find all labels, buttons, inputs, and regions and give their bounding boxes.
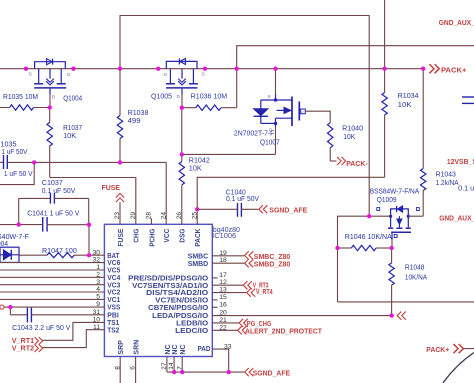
svg-text:SMBC_Z80: SMBC_Z80	[254, 254, 291, 261]
pin 26 DSG (top)	[176, 212, 187, 243]
svg-text:R1048: R1048	[405, 265, 425, 272]
net label V_RT2	[12, 344, 43, 352]
svg-text:R1038: R1038	[128, 110, 149, 117]
svg-text:004: 004	[0, 241, 8, 248]
wire Q1009 source to R1043	[408, 215, 423, 217]
wire Q1007 drain to R1040	[305, 111, 330, 123]
pin 30 BAT (left)	[92, 249, 119, 259]
svg-text:VC7SEN/TS3/AD1/IO: VC7SEN/TS3/AD1/IO	[132, 283, 209, 290]
wire PACK pin net from R1034	[197, 177, 384, 224]
svg-text:0.1 uF 50V: 0.1 uF 50V	[42, 188, 76, 195]
junction R1036 rail	[235, 67, 239, 71]
svg-text:R1034: R1034	[398, 93, 419, 100]
resistor R1034	[382, 69, 387, 178]
wire NC pin 14 stub	[173, 357, 175, 373]
svg-text:1 uF 50V: 1 uF 50V	[1, 149, 27, 156]
svg-text:TS2: TS2	[107, 327, 119, 334]
svg-text:499: 499	[128, 118, 141, 125]
pin 16 CB7EN/PDSG/IO (right)	[148, 301, 227, 312]
capacitor C1040	[197, 203, 258, 217]
net label FUSE with chevron	[102, 185, 125, 202]
pin 25 PACK (top)	[191, 212, 202, 247]
wire pin 12 to V_RT3	[212, 284, 243, 286]
wire pin 13 to V_RT4	[212, 292, 246, 294]
svg-text:2N7002T-7-F: 2N7002T-7-F	[234, 131, 275, 138]
junction C1037 C1041 left	[17, 222, 21, 226]
wire Q1005 drain stub	[181, 95, 183, 108]
wire main PACK+ rail y=68.7	[0, 68, 423, 70]
transistor Q1004	[29, 59, 71, 100]
resistor R1046	[338, 245, 392, 250]
svg-text:10K: 10K	[189, 165, 202, 172]
svg-text:SRN: SRN	[134, 340, 141, 355]
pin 7 NC (bottom)	[176, 344, 187, 369]
pin 3 VC3 (left)	[96, 279, 120, 290]
wire top loop B from rail at x=236.7 up to y=45.7 and right off-sheet	[237, 46, 474, 69]
wire pin 22 to ALERT	[212, 329, 237, 331]
wire pin 21 to PG_CHG	[212, 322, 239, 324]
connector circle VSS	[0, 305, 4, 309]
wire PAD pin 33	[212, 349, 228, 372]
wire VCC net y=162.4	[7, 161, 166, 163]
svg-text:LEDA/PDSG/IO: LEDA/PDSG/IO	[152, 313, 209, 320]
svg-text:S: S	[29, 72, 32, 77]
wire lower rail to off-sheet right	[338, 301, 474, 303]
junction PAD	[227, 370, 231, 374]
wire gate riser Q1007	[275, 127, 277, 155]
svg-text:LEDB/IO: LEDB/IO	[176, 321, 209, 328]
svg-text:17: 17	[219, 272, 227, 279]
svg-text:ALERT_2ND_PROTECT: ALERT_2ND_PROTECT	[245, 329, 323, 336]
svg-text:D: D	[301, 110, 304, 114]
pin 2 VC4 (left)	[96, 271, 120, 282]
svg-text:R1036 10M: R1036 10M	[191, 94, 228, 101]
svg-text:10K: 10K	[63, 133, 76, 140]
capacitor C1043	[10, 308, 104, 323]
svg-text:IC1006: IC1006	[212, 233, 236, 240]
svg-text:SGND_AFE: SGND_AFE	[269, 207, 307, 214]
svg-text:PBI: PBI	[107, 312, 119, 319]
wire C1037 right leg down	[88, 198, 90, 224]
wire Q1009 drain down to R1046 junction	[391, 240, 393, 248]
svg-text:Q1009: Q1009	[377, 197, 397, 204]
pin 18 SMBD (right)	[188, 257, 227, 268]
junction PACK+ rail	[421, 67, 425, 71]
resistor R1047	[19, 253, 104, 258]
wire C1035 branch down-left	[0, 162, 34, 184]
wire VC6 row	[0, 262, 104, 264]
net label SMBC_Z80	[245, 251, 291, 261]
wire pin 16 stub	[212, 306, 217, 308]
wire Q1004 drain stub	[49, 95, 51, 108]
junction R1034 rail	[382, 67, 386, 71]
wire VCC net corner down to pin 24	[165, 162, 167, 224]
svg-text:29: 29	[130, 212, 137, 220]
svg-text:1.2k/NA: 1.2k/NA	[436, 180, 459, 187]
junction pin25 C1040	[195, 207, 199, 211]
resistor R1037	[47, 108, 52, 178]
svg-text:SMBC: SMBC	[188, 253, 209, 260]
wire gate net Q1007	[182, 153, 276, 155]
resistor R1036	[182, 69, 237, 111]
resistor R1042	[179, 108, 184, 225]
wire NC pin 7 stub	[181, 357, 183, 373]
svg-text:0.1 uF 50V: 0.1 uF 50V	[226, 196, 259, 203]
svg-text:DIS/TS4/AD2/IO: DIS/TS4/AD2/IO	[146, 290, 209, 297]
wire R1034 net off-sheet top	[384, 0, 386, 69]
svg-text:R1043: R1043	[436, 172, 456, 179]
svg-text:SMBD: SMBD	[188, 261, 209, 268]
svg-text:V_RT1: V_RT1	[12, 338, 34, 345]
wire Q1007 source to rail	[275, 69, 277, 94]
junction R1035 R1037	[48, 105, 52, 109]
svg-text:VC7EN/DIS/IO: VC7EN/DIS/IO	[155, 298, 209, 305]
svg-text:R1047 100: R1047 100	[42, 248, 77, 255]
svg-text:R1035 10M: R1035 10M	[3, 94, 38, 101]
transistor Q1005	[164, 58, 205, 99]
wire SRN pin 6 stub	[135, 357, 137, 383]
net label PACK-	[337, 157, 368, 168]
pin 20 LEDA/PDSG/IO (right)	[152, 310, 227, 321]
svg-text:10K/NA: 10K/NA	[405, 275, 428, 282]
svg-text:VC3: VC3	[107, 282, 120, 289]
svg-text:CHG: CHG	[134, 228, 141, 242]
wire pin 17 stub	[212, 277, 217, 279]
pin 19 SMBC (right)	[188, 250, 227, 261]
junction Q1005 S	[203, 67, 207, 71]
svg-text:0.1 u: 0.1 u	[458, 186, 474, 193]
svg-text:PCHG: PCHG	[149, 228, 156, 246]
svg-text:BSS84W-7-F/NA: BSS84W-7-F/NA	[370, 189, 420, 196]
svg-text:15: 15	[219, 294, 227, 301]
junction R1038 VCC	[118, 160, 122, 164]
pin 14 NC (bottom)	[168, 344, 179, 369]
pin 27 NC (bottom)	[161, 344, 172, 369]
pin 15 VC7EN/DIS/IO (right)	[155, 294, 227, 305]
svg-text:V_RT4: V_RT4	[256, 289, 273, 296]
junction R1038 top	[118, 67, 122, 71]
capacitor C1035	[0, 155, 7, 169]
svg-text:PRE/SD/DIS/PDSG/IO: PRE/SD/DIS/PDSG/IO	[128, 276, 209, 283]
junction BAT	[87, 253, 91, 257]
net label V_RT1	[12, 337, 43, 345]
capacitor C1041	[0, 217, 89, 232]
resistor R1038	[117, 69, 122, 163]
svg-text:R1046 10K/NA: R1046 10K/NA	[345, 234, 392, 241]
svg-text:R1037: R1037	[63, 125, 82, 132]
resistor R1040	[328, 123, 337, 161]
wire R1037 to CHG pin 29	[50, 178, 136, 225]
capacitor plates at right edge	[462, 96, 474, 98]
svg-text:V_RT2: V_RT2	[12, 346, 34, 353]
junction Q1005 G	[156, 67, 160, 71]
net label LEDA chevron	[397, 312, 406, 320]
pin 5 VC1 (left)	[96, 294, 120, 305]
pin 29 CHG (top)	[130, 212, 141, 243]
pin 6 SRN (bottom)	[130, 340, 141, 370]
svg-text:NC: NC	[165, 344, 172, 354]
wire TS2 to V_RT2	[43, 330, 105, 348]
svg-text:VCC: VCC	[164, 229, 171, 243]
junction C1041 right	[87, 223, 91, 227]
pin 9 VSS (left)	[96, 301, 120, 312]
svg-text:PACK-: PACK-	[346, 161, 368, 168]
svg-text:LEDC/IO: LEDC/IO	[175, 328, 209, 335]
resistor R1048	[389, 248, 394, 316]
svg-text:VC2: VC2	[107, 290, 120, 297]
svg-text:PACK: PACK	[195, 229, 202, 247]
svg-text:Q1007: Q1007	[260, 139, 280, 146]
wire VC2 row	[0, 291, 104, 293]
svg-text:S40W-7-F: S40W-7-F	[0, 234, 29, 241]
junction LEDA R1048	[389, 313, 393, 317]
pin 28 PCHG (top)	[146, 212, 157, 247]
net label PG_CHG	[239, 319, 272, 328]
net label SGND_AFE mid	[259, 205, 308, 214]
pin 8 SRP (bottom)	[114, 340, 125, 370]
net label V_RT3	[243, 281, 268, 289]
connector arc bottom right	[443, 353, 474, 383]
resistor R1035	[0, 105, 50, 110]
svg-text:NC: NC	[180, 344, 187, 354]
svg-text:28: 28	[146, 212, 153, 220]
diode D1004 in box	[0, 247, 19, 262]
wire Q1009 gate net	[369, 215, 390, 217]
pin 11 TS2 (left)	[93, 324, 119, 335]
svg-text:FUSE: FUSE	[118, 228, 125, 246]
pin 22 LEDC/IO (right)	[175, 324, 227, 335]
svg-text:FUSE: FUSE	[102, 185, 121, 192]
pin 23 FUSE stub	[119, 202, 121, 224]
junction VSS C1043	[8, 305, 12, 309]
svg-text:PAD: PAD	[198, 346, 211, 353]
svg-text:Q1005: Q1005	[151, 93, 172, 100]
svg-text:TS1: TS1	[107, 320, 119, 327]
net label ALERT_2ND_PROTECT	[238, 326, 323, 335]
net label PACK+ bottom	[426, 344, 474, 354]
pin 33 PAD	[198, 343, 232, 353]
svg-text:C1037: C1037	[42, 180, 63, 187]
wire VC4 row	[0, 276, 104, 278]
wire pin 15 stub	[212, 299, 217, 301]
wire SGND_AFE bottom rail	[167, 371, 244, 373]
pin 12 VC7SEN/TS3/AD1/IO (right)	[132, 279, 227, 290]
wire LEDA pin 20	[212, 315, 391, 317]
svg-text:10K: 10K	[343, 134, 355, 141]
svg-text:GND_AUX_Z: GND_AUX_Z	[439, 20, 474, 27]
wire top loop A from rail up to y=15.5 across to x=369.2	[120, 16, 369, 217]
junction C1035	[32, 160, 36, 164]
svg-text:R1042: R1042	[189, 158, 210, 165]
svg-text:GND_AUX_Z: GND_AUX_Z	[439, 216, 474, 223]
pin 28 stub	[150, 218, 152, 224]
wire TS1 to V_RT1	[43, 322, 105, 340]
svg-text:Q1004: Q1004	[63, 95, 82, 102]
svg-text:VC1: VC1	[107, 297, 120, 304]
IC U1006 bq40z80 body	[104, 224, 212, 356]
net label V_RT4	[247, 289, 273, 297]
junction R1042 gate net	[180, 152, 184, 156]
junction Q1009 gate	[367, 214, 371, 218]
wire SMBC pin 19	[212, 255, 244, 257]
svg-text:SRP: SRP	[118, 340, 125, 355]
wire NC pin 27 stub	[166, 357, 168, 373]
pin 4 VC2 (left)	[96, 286, 120, 297]
svg-text:SMBD_Z80: SMBD_Z80	[254, 261, 291, 268]
wire VC1 row	[0, 298, 104, 300]
junction Q1005 drain	[180, 106, 184, 110]
pin 21 LEDB/IO (right)	[176, 317, 227, 328]
junction NC14	[172, 370, 176, 374]
svg-text:1035: 1035	[1, 141, 17, 148]
svg-text:S: S	[268, 94, 271, 99]
pin 10 TS1 (left)	[92, 317, 119, 328]
wire SRP pin 8 stub	[119, 357, 121, 383]
svg-text:10K: 10K	[398, 102, 412, 109]
net label SMBD_Z80	[245, 259, 291, 268]
svg-text:G: G	[67, 72, 71, 77]
pin 32 VC6 (left)	[92, 257, 120, 268]
svg-text:PG_CHG: PG_CHG	[247, 321, 272, 328]
pin 24 VCC (top)	[160, 212, 171, 243]
junction R1046 left	[335, 246, 339, 250]
svg-text:R1040: R1040	[342, 125, 363, 132]
resistor R1043	[421, 69, 426, 217]
pin 23 FUSE (top)	[114, 212, 125, 247]
junction NC7	[180, 370, 184, 374]
svg-text:DSG: DSG	[180, 228, 187, 243]
capacitor C1037	[19, 193, 89, 204]
svg-text:30: 30	[92, 249, 100, 256]
pin 13 DIS/TS4/AD2/IO (right)	[146, 287, 227, 298]
svg-text:VC4: VC4	[107, 275, 120, 282]
svg-text:PACK+: PACK+	[441, 67, 467, 74]
svg-text:NC: NC	[172, 344, 179, 354]
svg-text:C1041 1 uF 50 V: C1041 1 uF 50 V	[27, 211, 80, 218]
svg-text:PACK+: PACK+	[426, 347, 449, 354]
junction Q1004 S	[24, 67, 28, 71]
transistor Q1007	[254, 94, 306, 133]
net label SGND_AFE bottom	[245, 368, 291, 377]
junction Q1004 G	[71, 67, 75, 71]
svg-text:SGND_AFE: SGND_AFE	[253, 370, 291, 377]
wire C1037 left leg down	[18, 198, 20, 224]
svg-text:VSS: VSS	[107, 305, 120, 312]
svg-text:VC5: VC5	[107, 268, 120, 275]
wire SMBD pin 18	[212, 262, 244, 264]
pin 31 PBI (left)	[92, 309, 118, 320]
pin 17 PRE/SD/DIS/PDSG/IO (right)	[128, 272, 227, 283]
wire VC5 row	[0, 269, 104, 271]
svg-text:BAT: BAT	[107, 253, 120, 260]
wire VC3 row	[0, 284, 104, 286]
svg-text:24: 24	[160, 212, 167, 220]
svg-text:1 uF 50 V: 1 uF 50 V	[4, 171, 33, 178]
pin 1 VC5 (left)	[96, 264, 120, 275]
svg-text:VC6: VC6	[107, 260, 120, 267]
junction Q1007 S rail	[273, 67, 277, 71]
svg-text:12VSB_S: 12VSB_S	[447, 159, 474, 166]
transistor Q1009	[377, 206, 420, 240]
svg-text:16: 16	[219, 301, 227, 308]
wire VSS to C1043	[9, 307, 11, 315]
wire VSS row	[4, 306, 104, 308]
svg-text:CB7EN/PDSG/IO: CB7EN/PDSG/IO	[148, 305, 209, 312]
svg-text:S: S	[202, 72, 205, 77]
junction R1046 right	[389, 246, 393, 250]
wire C1041 to BAT net	[88, 225, 90, 256]
svg-text:C1043 2.2 uF 50 V: C1043 2.2 uF 50 V	[12, 325, 71, 332]
svg-text:G: G	[164, 72, 168, 77]
net label PACK+ top	[429, 64, 466, 74]
